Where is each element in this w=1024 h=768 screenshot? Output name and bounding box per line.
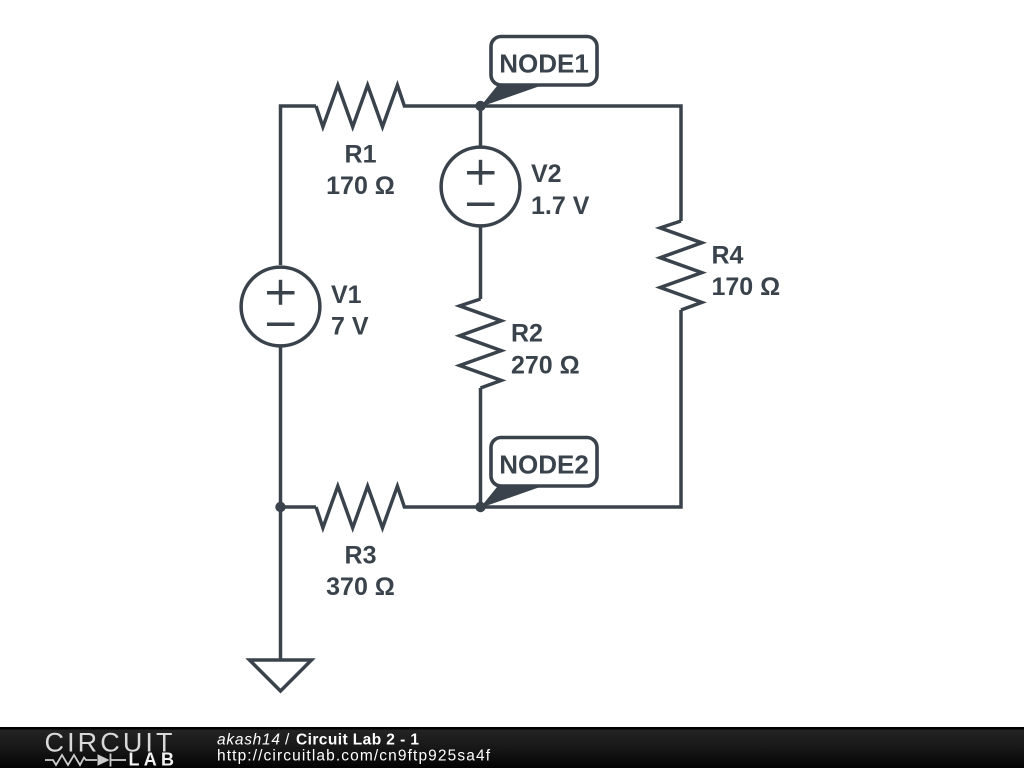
resistor R3 xyxy=(316,486,480,528)
svg-text:NODE2: NODE2 xyxy=(499,450,589,480)
svg-text:270 Ω: 270 Ω xyxy=(511,352,580,380)
voltage source V2 xyxy=(441,147,520,226)
svg-text:http://circuitlab.com/cn9ftp92: http://circuitlab.com/cn9ftp925sa4f xyxy=(217,748,491,765)
wire R2 to NODE2 xyxy=(479,388,483,507)
wire V1 to bottom junction xyxy=(279,346,283,507)
wire NODE2 to bottom-right corner xyxy=(480,310,681,507)
svg-text:7 V: 7 V xyxy=(331,313,369,341)
junction dot left rail xyxy=(275,502,285,512)
svg-text:akash14: akash14 xyxy=(217,732,280,749)
wire NODE1 down to V2 xyxy=(479,106,483,148)
svg-text:R2: R2 xyxy=(511,320,543,348)
svg-text:1.7 V: 1.7 V xyxy=(531,192,590,220)
svg-text:LAB: LAB xyxy=(129,749,175,768)
node B junction dot NODE2 xyxy=(475,502,485,512)
svg-text:170 Ω: 170 Ω xyxy=(712,273,781,301)
resistor R4 xyxy=(660,221,702,310)
svg-text:R4: R4 xyxy=(712,242,744,270)
logo resistor-diode glyph xyxy=(45,754,126,767)
svg-text:NODE1: NODE1 xyxy=(499,49,589,79)
svg-text:370 Ω: 370 Ω xyxy=(326,573,395,601)
svg-text:R1: R1 xyxy=(345,141,377,169)
voltage source V1 xyxy=(241,267,320,346)
svg-text:R3: R3 xyxy=(345,542,377,570)
resistor R2 xyxy=(460,299,502,388)
wire NODE1 to top-right corner down to R4 xyxy=(480,106,681,221)
footer bar xyxy=(0,727,1024,768)
node NODE1 callout xyxy=(480,37,597,108)
wire top rail from left corner to R1 to NODE1 to right corner xyxy=(281,106,317,265)
wire V2 to R2 xyxy=(479,226,483,299)
resistor R1 xyxy=(316,85,480,127)
wire junction down to ground xyxy=(279,507,283,660)
svg-text:170 Ω: 170 Ω xyxy=(326,172,395,200)
node A junction dot NODE1 xyxy=(475,101,485,111)
node NODE2 callout xyxy=(480,438,597,509)
ground xyxy=(250,660,312,691)
svg-text:V2: V2 xyxy=(531,160,562,188)
svg-text:Circuit Lab 2 - 1: Circuit Lab 2 - 1 xyxy=(296,732,419,749)
svg-text:V1: V1 xyxy=(331,281,362,309)
svg-text:/: / xyxy=(285,732,290,749)
wire junction to R3 xyxy=(281,505,317,509)
